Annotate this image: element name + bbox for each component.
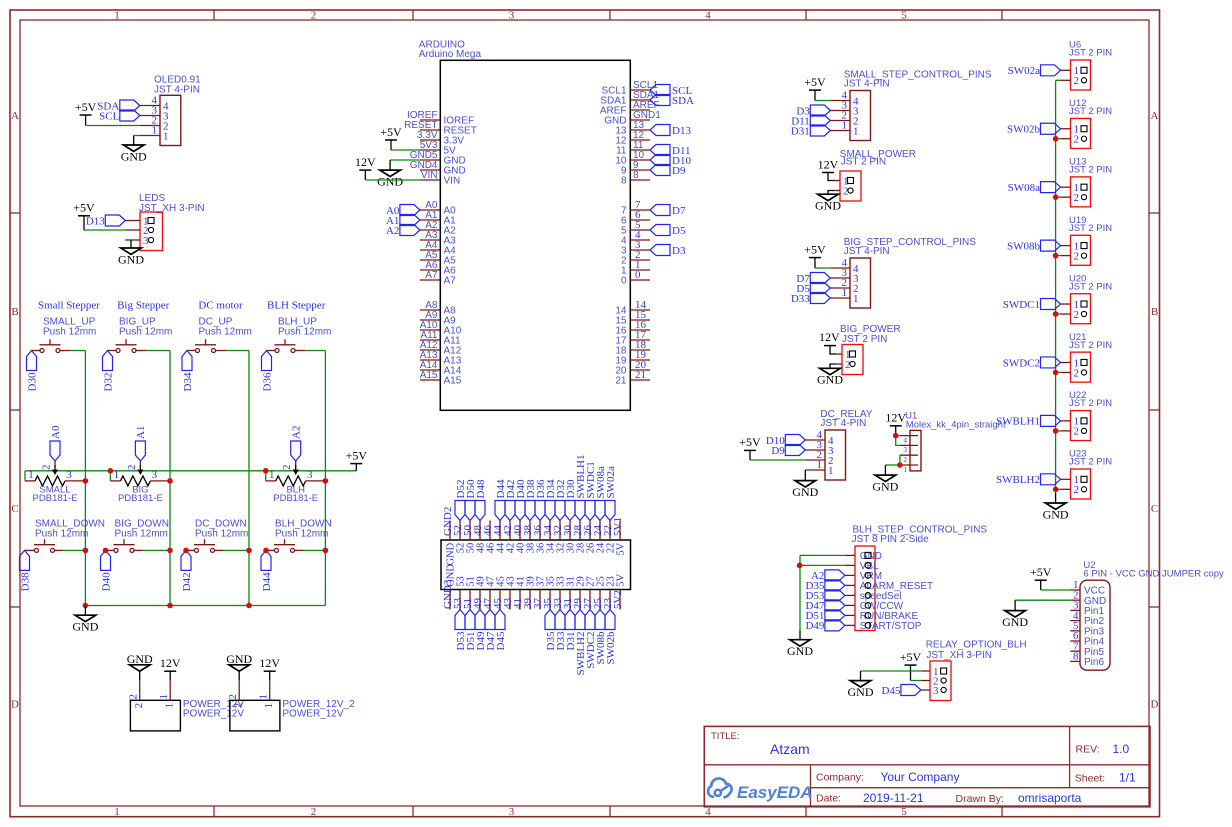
- net flag D47 (blh step): [805, 600, 844, 612]
- label Small Stepper: [38, 300, 100, 312]
- power +5V (pot rail): [346, 448, 368, 470]
- net flag D35 (blh step): [805, 580, 844, 592]
- power +5V (OLED): [75, 100, 97, 126]
- net flag D31 (header bottom): [565, 610, 577, 651]
- junction BIG_DOWN trunk: [167, 548, 173, 554]
- junction U22 pin2: [1053, 428, 1059, 434]
- wire rail to SMALL pot pin1: [24, 471, 26, 481]
- svg-text:PDB181-E: PDB181-E: [118, 493, 163, 504]
- svg-text:GND: GND: [118, 252, 144, 266]
- junction BIG pot pin3: [167, 478, 173, 484]
- svg-text:2: 2: [1074, 309, 1080, 321]
- svg-text:TITLE:: TITLE:: [711, 731, 740, 742]
- svg-text:JST 2 PIN: JST 2 PIN: [1069, 398, 1112, 409]
- wire rail to BLH pot pin1: [265, 471, 267, 481]
- header top pin 46: [482, 521, 497, 554]
- header top pin 22: [602, 521, 617, 554]
- svg-text:3: 3: [933, 685, 939, 697]
- wire trunk blh: [324, 351, 326, 606]
- net flag SWBLH1 (header top): [575, 455, 587, 521]
- svg-text:SW02a: SW02a: [1008, 65, 1041, 77]
- label DC_DOWN: [195, 519, 248, 540]
- junction U20 pin2: [1053, 311, 1059, 317]
- header top pin 48: [472, 521, 487, 554]
- OLED0.91 pins 4-1: [140, 95, 169, 143]
- net flag D44 (header top): [495, 479, 507, 520]
- wire relay pin1 to ground: [861, 670, 921, 672]
- connector U13 JST 2 PIN: [1061, 156, 1113, 206]
- svg-text:B: B: [1151, 306, 1158, 318]
- ground (blh step): [787, 631, 813, 658]
- svg-text:5V: 5V: [616, 574, 627, 587]
- net flag D5 (arduino): [650, 225, 686, 237]
- svg-text:GND: GND: [792, 485, 818, 499]
- title block rev value: [1113, 742, 1130, 756]
- connector U23 JST 2 PIN: [1061, 449, 1113, 499]
- wire SMALL_UP to trunk: [70, 350, 85, 352]
- svg-text:1: 1: [114, 9, 120, 21]
- label BIG_UP: [119, 317, 172, 338]
- net flag A1 (arduino): [386, 215, 420, 227]
- svg-text:5: 5: [901, 9, 907, 21]
- header bottom pin 27: [582, 576, 597, 609]
- wire trunk small: [84, 351, 86, 606]
- ic ARDUINO Arduino Mega body: [419, 40, 631, 411]
- svg-text:12V: 12V: [160, 656, 181, 670]
- potentiometer BLH PDB181-E: [266, 461, 326, 504]
- svg-text:D34: D34: [182, 372, 194, 391]
- header top pin 5V1: [612, 517, 627, 556]
- wire 12V to arduino VIN: [365, 179, 420, 181]
- net flag D13: [86, 215, 125, 227]
- svg-text:1: 1: [828, 465, 834, 477]
- svg-text:1: 1: [163, 130, 169, 142]
- header top pin 26: [582, 521, 597, 554]
- header top pin 52: [452, 521, 467, 554]
- net flag D30 (header top): [565, 479, 577, 520]
- connector SMALL_POWER: [834, 149, 916, 201]
- ground (right column): [1043, 493, 1069, 521]
- net flag SWDC2: [1003, 357, 1061, 369]
- net flag D11 (arduino): [650, 145, 691, 157]
- title block Date label: [816, 792, 841, 804]
- net flag D36 (header top): [535, 479, 547, 520]
- svg-text:B: B: [11, 306, 18, 318]
- header top pin 32: [552, 521, 567, 554]
- svg-text:1.0: 1.0: [1113, 742, 1130, 756]
- svg-text:2: 2: [281, 465, 293, 471]
- wire dc relay pin1 to ground: [804, 470, 806, 481]
- net flag SWBLH2 (header bottom): [575, 610, 587, 676]
- svg-text:GND: GND: [377, 174, 403, 188]
- svg-text:GND: GND: [872, 479, 898, 493]
- wire U13 pin2 to trunk: [1056, 196, 1061, 198]
- net flag D45 (header bottom): [495, 610, 507, 651]
- svg-text:GND: GND: [1002, 615, 1028, 629]
- junction rail-BLH: [263, 468, 269, 474]
- net flag D34 (header top): [545, 479, 557, 520]
- svg-text:A7: A7: [444, 276, 457, 287]
- svg-text:DC motor: DC motor: [198, 300, 243, 312]
- svg-text:12V: 12V: [259, 656, 280, 670]
- svg-text:JST 2 PIN: JST 2 PIN: [1069, 281, 1112, 292]
- net flag D40 (header top): [515, 479, 527, 520]
- connector U19 JST 2 PIN: [1061, 215, 1113, 265]
- power 12V (POWER_12V pin1): [160, 656, 181, 680]
- svg-text:D5: D5: [672, 225, 686, 237]
- connector BIG_POWER: [836, 324, 901, 375]
- label Big Stepper: [117, 300, 170, 312]
- svg-text:D: D: [1151, 699, 1159, 711]
- net flag D10 (arduino): [650, 155, 691, 167]
- connector U1 Molex_kk_4pin_straight: [900, 411, 1006, 474]
- svg-text:+5V: +5V: [346, 448, 368, 462]
- header bottom pin 39: [522, 576, 537, 609]
- wire small power pin2 to ground: [828, 191, 834, 195]
- ground (small power): [815, 194, 841, 212]
- svg-text:1: 1: [853, 293, 859, 305]
- svg-text:Push 12mm: Push 12mm: [119, 326, 172, 337]
- wire +5V to U2 pin1: [1041, 589, 1071, 591]
- svg-text:Arduino Mega: Arduino Mega: [419, 49, 482, 60]
- svg-text:4: 4: [705, 9, 711, 21]
- push button DC_UP: [187, 339, 226, 352]
- wire gnd rail (buttons): [85, 605, 325, 607]
- title block sheet value: [1119, 771, 1136, 785]
- svg-text:5V1: 5V1: [612, 517, 624, 536]
- svg-text:C: C: [11, 503, 18, 515]
- junction SMALL pot pin3: [83, 478, 89, 484]
- svg-text:D42: D42: [181, 572, 193, 591]
- wire big power pin2 to ground: [830, 364, 836, 368]
- svg-text:D45: D45: [495, 631, 507, 650]
- wire U12 pin2 to trunk: [1056, 138, 1061, 140]
- svg-text:JST 2 PIN: JST 2 PIN: [842, 334, 887, 345]
- svg-text:2019-11-21: 2019-11-21: [863, 791, 924, 805]
- net flag D32: [102, 351, 114, 392]
- svg-text:JST 2 PIN: JST 2 PIN: [841, 157, 886, 168]
- svg-text:2: 2: [904, 456, 908, 464]
- net flag SW02b (header bottom): [605, 610, 617, 665]
- svg-text:0: 0: [635, 269, 641, 281]
- junction DC_DOWN flag: [183, 548, 189, 554]
- ground (relay option): [848, 671, 874, 699]
- svg-text:GND: GND: [226, 652, 252, 666]
- svg-text:2: 2: [1074, 250, 1080, 262]
- svg-text:1: 1: [263, 703, 275, 709]
- svg-text:D48: D48: [475, 479, 487, 498]
- net flag A0 (arduino): [386, 205, 420, 217]
- svg-text:1: 1: [114, 806, 120, 818]
- svg-text:EasyEDA: EasyEDA: [737, 783, 813, 802]
- svg-text:GND: GND: [1043, 507, 1069, 521]
- header bottom pin 25: [592, 576, 607, 609]
- connector U20 JST 2 PIN: [1061, 273, 1113, 323]
- svg-text:JST 2 PIN: JST 2 PIN: [1069, 457, 1112, 468]
- connector RELAY_OPTION_BLH: [921, 640, 1027, 701]
- net flag D36: [261, 351, 273, 392]
- svg-text:RELAY_OPTION_BLH: RELAY_OPTION_BLH: [926, 640, 1027, 651]
- svg-text:GND: GND: [817, 373, 843, 387]
- wire OLED pin1 to ground: [134, 136, 140, 146]
- header bottom pin 5V2: [612, 574, 627, 610]
- wire trunk dc: [248, 351, 250, 606]
- label BLH_UP: [278, 317, 331, 338]
- svg-text:Date:: Date:: [816, 792, 841, 804]
- net flag D3 (small step): [796, 105, 830, 117]
- svg-text:VIN: VIN: [444, 176, 461, 187]
- header bottom pin 31: [562, 576, 577, 609]
- net flag D30: [26, 351, 38, 392]
- svg-text:2: 2: [311, 806, 317, 818]
- wire DC_UP to trunk: [226, 350, 250, 352]
- junction U19 pin2: [1053, 253, 1059, 259]
- net flag A2 (pot): [291, 426, 303, 461]
- svg-text:GND: GND: [127, 652, 153, 666]
- wire U6 pin2 to trunk: [1056, 79, 1061, 81]
- svg-text:SW02a: SW02a: [605, 466, 617, 499]
- svg-text:+5V: +5V: [1030, 565, 1052, 579]
- svg-text:JST 4-PIN: JST 4-PIN: [820, 418, 866, 429]
- net flag D33 (big step): [791, 293, 830, 305]
- svg-text:2: 2: [1074, 484, 1080, 496]
- svg-text:3: 3: [509, 806, 515, 818]
- svg-text:D36: D36: [261, 372, 273, 391]
- svg-text:12V: 12V: [819, 330, 840, 344]
- header bottom pin 33: [552, 576, 567, 609]
- svg-text:3: 3: [66, 469, 72, 481]
- svg-text:Sheet:: Sheet:: [1075, 772, 1105, 784]
- net flag SWBLH2: [996, 474, 1061, 486]
- title block frame: [704, 726, 1150, 806]
- svg-text:1: 1: [269, 469, 275, 481]
- connector LEDS JST_XH 3-PIN: [139, 193, 205, 251]
- label SMALL_DOWN: [35, 519, 105, 540]
- svg-text:1: 1: [842, 287, 848, 299]
- svg-text:Push 12mm: Push 12mm: [278, 326, 331, 337]
- power 12V (POWER_12V_2 pin1): [259, 656, 280, 680]
- svg-text:D3: D3: [672, 245, 686, 257]
- power +5V (U2): [1030, 565, 1052, 590]
- svg-text:3: 3: [904, 446, 908, 454]
- junction U1 gnd: [897, 462, 903, 468]
- svg-text:PDB181-E: PDB181-E: [33, 493, 78, 504]
- label SMALL_UP: [43, 317, 96, 338]
- net flag D44: [261, 550, 273, 591]
- svg-text:JST_XH 3-PIN: JST_XH 3-PIN: [926, 650, 992, 661]
- net flag D49 (header bottom): [475, 610, 487, 651]
- svg-text:A: A: [11, 110, 19, 122]
- svg-text:C: C: [1151, 503, 1158, 515]
- svg-text:2: 2: [41, 465, 53, 471]
- svg-text:JST 2 PIN: JST 2 PIN: [1069, 223, 1112, 234]
- svg-text:8: 8: [621, 176, 627, 187]
- power +5V (arduino 5V pin): [380, 125, 402, 150]
- svg-text:Push 12mm: Push 12mm: [275, 528, 328, 539]
- connector U12 JST 2 PIN: [1061, 98, 1113, 148]
- svg-text:+5V: +5V: [900, 650, 922, 664]
- wire DC_DOWN to trunk: [224, 549, 250, 551]
- svg-text:POWER_12V: POWER_12V: [183, 709, 244, 720]
- svg-text:D9: D9: [771, 445, 785, 457]
- net flag SDA (arduino): [650, 95, 694, 107]
- net flag D51 (header bottom): [465, 610, 477, 651]
- svg-text:12V: 12V: [818, 157, 839, 171]
- power 12V (big power): [819, 330, 840, 354]
- arduino pins A8-A15: [420, 300, 462, 386]
- svg-text:D32: D32: [102, 373, 114, 392]
- net flag SW02a: [1008, 65, 1061, 77]
- net flag D51 (blh step): [805, 610, 844, 622]
- wire rail to BIG pot pin1: [109, 471, 111, 481]
- svg-text:1: 1: [114, 469, 120, 481]
- ground (arduino): [377, 160, 403, 188]
- svg-text:2: 2: [311, 9, 317, 21]
- net flag SW08a (header top): [595, 466, 607, 521]
- svg-text:Push 12mm: Push 12mm: [195, 528, 248, 539]
- svg-text:A: A: [1151, 110, 1159, 122]
- label DC motor: [198, 300, 243, 312]
- junction BLH pot pin3: [323, 478, 329, 484]
- svg-text:JST 4-PIN: JST 4-PIN: [154, 85, 200, 96]
- wire BIG_DOWN to trunk: [143, 549, 170, 551]
- svg-text:A2: A2: [386, 225, 399, 237]
- svg-text:SW08b: SW08b: [1007, 240, 1041, 252]
- wire U23 pin2 to trunk: [1056, 488, 1061, 490]
- net flag D10 (dc relay): [766, 435, 805, 447]
- junction U1 12V: [893, 433, 899, 439]
- svg-text:D38: D38: [19, 572, 31, 591]
- svg-text:JST 8 PIN 2-Side: JST 8 PIN 2-Side: [852, 534, 930, 545]
- svg-text:Push 12mm: Push 12mm: [35, 528, 88, 539]
- wire BLH_DOWN to trunk: [304, 549, 326, 551]
- svg-text:VIN: VIN: [421, 170, 438, 181]
- wire +5V to LEDS pin2: [84, 229, 125, 231]
- wire 12V to U1 pin3: [896, 436, 900, 446]
- net flag D9 (dc relay): [771, 445, 805, 457]
- power +5V (LEDS): [73, 201, 95, 230]
- svg-text:GND: GND: [121, 149, 147, 163]
- arduino right pins 7-0: [621, 199, 650, 286]
- title block TITLE label: [711, 731, 740, 742]
- wire +5V to dc relay pin2: [750, 459, 805, 461]
- net flag D42: [181, 550, 193, 591]
- svg-text:6 PIN - VCC GND JUMPER copy: 6 PIN - VCC GND JUMPER copy: [1083, 569, 1224, 580]
- svg-text:JST 2 PIN: JST 2 PIN: [1069, 164, 1112, 175]
- svg-text:D44: D44: [261, 572, 273, 591]
- connector BLH_STEP_CONTROL_PINS: [845, 525, 987, 633]
- svg-text:2: 2: [233, 703, 245, 709]
- arduino left power pins IOREF-VIN: [404, 110, 477, 186]
- junction DC_DOWN trunk: [246, 548, 252, 554]
- net flag SWDC2 (header bottom): [585, 610, 597, 669]
- net flag SCL (arduino): [650, 85, 692, 97]
- power +5V (dc relay): [739, 435, 761, 460]
- net flag D53 (blh step): [805, 590, 844, 602]
- net flag D35 (header bottom): [545, 610, 557, 651]
- LEDS pins 1-3: [125, 215, 154, 247]
- junction SMALL_DOWN trunk: [83, 548, 89, 554]
- net flag D48 (header top): [475, 479, 487, 520]
- svg-text:GND: GND: [848, 685, 874, 699]
- svg-text:REV:: REV:: [1076, 744, 1100, 756]
- net flag D13 (arduino): [650, 125, 691, 137]
- push button SMALL_UP: [32, 339, 71, 352]
- wire U21 pin2 to trunk: [1056, 371, 1061, 373]
- ground (big power): [817, 368, 843, 386]
- svg-text:2: 2: [1074, 75, 1080, 87]
- label DC_UP: [199, 317, 252, 338]
- svg-text:Small Stepper: Small Stepper: [38, 300, 100, 312]
- header top pin 50: [462, 521, 477, 554]
- title block Drawn By label: [956, 793, 1004, 805]
- ground (POWER_12V pin2): [127, 652, 153, 680]
- net flag D7 (arduino): [650, 205, 686, 217]
- junction BIG_DOWN flag: [103, 548, 109, 554]
- push button BIG_DOWN: [106, 539, 144, 552]
- net flag D3 (arduino): [650, 245, 686, 257]
- svg-text:1: 1: [158, 694, 170, 700]
- svg-text:2: 2: [128, 694, 140, 700]
- net flag D45: [881, 685, 920, 697]
- header bottom pin 23: [602, 576, 617, 609]
- svg-text:D7: D7: [672, 205, 686, 217]
- power 12V (arduino VIN): [355, 155, 376, 180]
- svg-text:A0: A0: [50, 425, 62, 439]
- svg-text:D45: D45: [881, 685, 900, 697]
- arduino pins A0-A7: [420, 200, 456, 286]
- wire +5V to arduino 5V: [391, 149, 420, 151]
- net flag D47 (header bottom): [485, 610, 497, 651]
- svg-text:Atzam: Atzam: [770, 741, 810, 757]
- svg-text:+5V: +5V: [73, 201, 95, 215]
- net flag D53 (header bottom): [455, 610, 467, 651]
- connector SMALL_STEP_CONTROL_PINS: [830, 70, 992, 141]
- title block company value: [881, 770, 960, 784]
- net flag SDA: [97, 100, 140, 112]
- svg-text:3: 3: [152, 469, 158, 481]
- connector BIG_STEP_CONTROL_PINS: [830, 237, 976, 308]
- svg-text:JST 4-PIN: JST 4-PIN: [844, 246, 890, 257]
- header bottom pin 29: [572, 576, 587, 609]
- push button BLH_UP: [267, 339, 306, 352]
- net flag D34: [182, 351, 194, 392]
- svg-text:2: 2: [126, 465, 138, 471]
- net flag D32 (header top): [555, 480, 567, 521]
- header bottom pin 47: [482, 576, 497, 609]
- arduino right pins SCL1-8: [600, 80, 661, 186]
- header bottom pin 37: [532, 576, 547, 609]
- svg-text:2: 2: [227, 694, 239, 700]
- svg-text:SWBLH1: SWBLH1: [996, 416, 1040, 428]
- svg-text:Push 12mm: Push 12mm: [115, 528, 168, 539]
- ground (U2): [1002, 600, 1028, 629]
- svg-text:+5V: +5V: [739, 435, 761, 449]
- svg-text:SW08a: SW08a: [1008, 182, 1041, 194]
- net flag D9 (arduino): [650, 165, 686, 177]
- svg-text:2: 2: [1074, 192, 1080, 204]
- net flag SWDC1 (header top): [585, 461, 597, 520]
- title block drawn by value: [1018, 791, 1082, 805]
- svg-text:12V: 12V: [885, 411, 906, 425]
- svg-text:2: 2: [1074, 134, 1080, 146]
- junction gnd rail big: [167, 603, 173, 609]
- net flag A2 (arduino): [386, 225, 420, 237]
- connector U22 JST 2 PIN: [1061, 390, 1113, 440]
- power 12V (U1): [885, 411, 906, 436]
- header bottom pin 35: [542, 576, 557, 609]
- arduino right pins 14-21: [615, 299, 650, 386]
